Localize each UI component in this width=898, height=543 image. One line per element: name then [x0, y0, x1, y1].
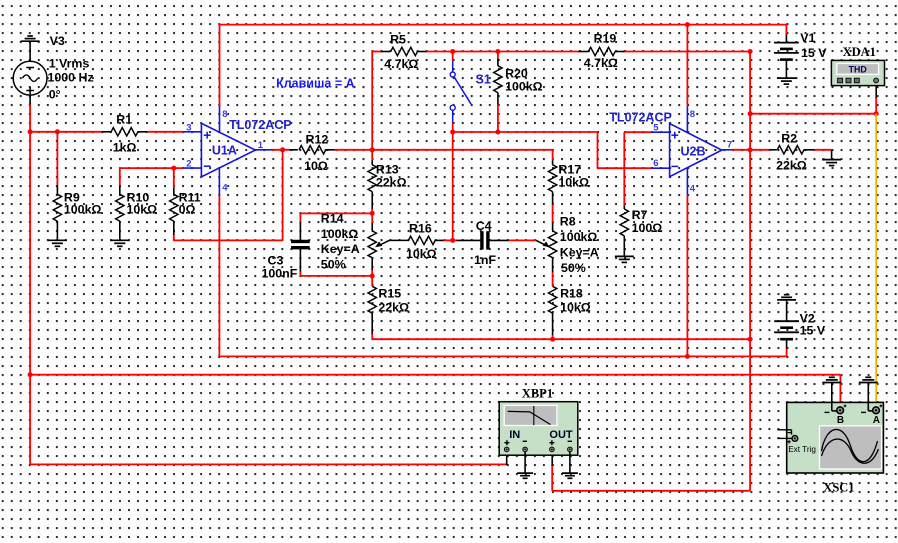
junction S1 bottom: [450, 130, 455, 135]
battery V2: [786, 300, 788, 321]
svg-text:XBP1: XBP1: [522, 387, 553, 401]
wire node A to R1: [30, 131, 102, 133]
svg-text:V3: V3: [50, 34, 65, 48]
wire R5 left drop x=372.2 to summing node: [371, 51, 373, 150]
resistor R9: [56, 186, 58, 195]
ground above V2: [777, 299, 796, 301]
svg-text:4: 4: [222, 183, 228, 194]
svg-text:Ext Trig: Ext Trig: [788, 445, 816, 454]
svg-text:R20: R20: [505, 67, 528, 81]
instrument XDA1 distortion analyzer: [831, 60, 884, 85]
svg-text:4: 4: [690, 184, 696, 195]
wire U2B pin4 drop: [686, 195, 688, 356]
wire R2 ground stub: [831, 150, 833, 160]
wire C3 top run y=213.4: [300, 212, 372, 214]
wire top V+ rail y=24.6: [220, 24, 787, 26]
op-amp U2B: [670, 124, 722, 177]
scope channel B terminal: [837, 407, 844, 414]
wire feedback riser x=282.6: [282, 150, 284, 241]
svg-text:1000 Hz: 1000 Hz: [48, 71, 94, 85]
resistor R10: [119, 186, 121, 195]
svg-text:V1: V1: [800, 31, 815, 45]
svg-text:7: 7: [727, 140, 732, 151]
svg-text:10kΩ: 10kΩ: [558, 175, 589, 189]
svg-text:C3: C3: [268, 253, 284, 267]
wire R11 bottom feedback run y=240.4: [173, 234, 175, 240]
svg-text:1nF: 1nF: [474, 253, 496, 267]
wire XBP1 OUT- ground stub: [569, 452, 571, 473]
wire S1 top stub: [452, 52, 454, 62]
ground above scope B: [822, 382, 841, 384]
wire output riser x=750.1: [749, 51, 751, 491]
ground below V1: [777, 77, 796, 79]
junction output riser/lower rail: [748, 337, 753, 342]
svg-text:XDA1: XDA1: [843, 45, 876, 59]
wire V- rail y=356.4: [219, 355, 786, 357]
resistor R11: [173, 188, 175, 194]
svg-text:TL072ACP: TL072ACP: [609, 111, 672, 125]
resistor R19: [579, 51, 589, 53]
wire switched net y=132.0 to corner: [453, 131, 598, 133]
ground below R9: [48, 239, 67, 241]
svg-text:R8: R8: [560, 215, 576, 229]
ground below R10: [110, 239, 129, 241]
svg-text:50%: 50%: [561, 261, 586, 275]
wire V1 drop from top rail: [785, 24, 787, 35]
svg-text:R2: R2: [781, 131, 797, 145]
svg-text:Key=A: Key=A: [560, 245, 599, 259]
wire XBP1 OUT+ black stub: [551, 452, 553, 466]
wire V3 to node A: [29, 104, 31, 132]
resistor R18: [548, 286, 556, 313]
junction output riser/top rail: [748, 49, 753, 54]
wire U1A pin4 drop x=219.4: [218, 195, 220, 356]
wire XBP1 IN+ black stub: [506, 452, 508, 465]
wire R20 top stub: [497, 52, 499, 59]
svg-text:22kΩ: 22kΩ: [378, 300, 409, 314]
junction U1A output/feedback: [280, 147, 285, 152]
wire R14 stubs: [371, 213, 373, 223]
svg-text:5: 5: [653, 123, 659, 134]
junction top rail / U2B pin8: [685, 22, 690, 27]
wire R17/R8 link stub: [552, 204, 554, 222]
resistor R5: [381, 51, 390, 53]
potentiometer R14: [371, 223, 373, 230]
wire R10 top drop: [119, 167, 121, 185]
wire corner down to U2B pin6 level: [597, 132, 599, 168]
svg-text:0°: 0°: [49, 87, 61, 101]
wire U1A pin8 supply riser x=219.5: [219, 24, 221, 107]
instrument XSC1 oscilloscope: [787, 402, 884, 473]
svg-text:10kΩ: 10kΩ: [127, 203, 158, 217]
junction R20 bottom: [495, 130, 500, 135]
svg-text:100kΩ: 100kΩ: [321, 227, 359, 241]
svg-text:IN: IN: [509, 429, 520, 441]
svg-text:THD: THD: [849, 65, 867, 75]
junction output riser/XDA row: [748, 111, 753, 116]
svg-text:1 Vrms: 1 Vrms: [49, 57, 90, 71]
junction V- rail / U2B pin4: [685, 354, 690, 359]
wire U2B pin7 to output riser: [732, 149, 750, 151]
wire XBP1 IN- ground stub: [524, 452, 526, 473]
wire R13 stubs: [371, 150, 373, 161]
svg-text:100Ω: 100Ω: [632, 221, 663, 235]
svg-text:Key=A: Key=A: [321, 242, 360, 256]
ground below XBP1 IN-: [517, 472, 533, 474]
svg-text:10kΩ: 10kΩ: [560, 300, 591, 314]
wire scope B ground stub: [831, 383, 833, 411]
svg-text:B: B: [837, 415, 844, 426]
wire S1 bottom to switched net: [452, 122, 454, 132]
junction input riser / bottom rail: [28, 372, 33, 377]
resistor R17: [552, 160, 554, 165]
wire R20 bottom: [497, 104, 499, 132]
resistor R7: [623, 205, 625, 209]
svg-text:Клавиша = А: Клавиша = А: [276, 77, 355, 91]
wire S1 riser down to wiper net x=452.7: [452, 132, 454, 240]
wire R12 to node B: [335, 149, 373, 151]
svg-text:3: 3: [186, 123, 191, 134]
svg-text:4.7kΩ: 4.7kΩ: [584, 56, 618, 70]
svg-text:R14: R14: [321, 212, 344, 226]
scope channel A terminal: [873, 407, 880, 414]
switch S1: [452, 62, 454, 73]
junction wiper net / S1 riser: [450, 238, 455, 243]
ground below R7: [615, 255, 634, 257]
svg-text:C4: C4: [476, 219, 492, 233]
svg-text:S1: S1: [476, 72, 491, 86]
svg-text:R12: R12: [306, 133, 329, 147]
resistor R13: [371, 160, 373, 164]
svg-text:XSC1: XSC1: [823, 481, 854, 495]
svg-text:22kΩ: 22kΩ: [376, 175, 407, 189]
wire R8 top red piece: [552, 272, 554, 286]
junction XDA row / scope-A feeder: [874, 111, 879, 116]
wire lower mid rail y=339.2 (R15-R18-output riser): [372, 338, 750, 340]
svg-text:R19: R19: [594, 32, 617, 46]
wire output to XBP1 OUT+: [552, 490, 750, 492]
svg-text:1: 1: [258, 140, 264, 151]
potentiometer R8: [552, 222, 554, 230]
svg-text:R15: R15: [378, 286, 401, 300]
svg-text:100kΩ: 100kΩ: [560, 230, 598, 244]
wire U2B pin5 corner to R7: [624, 131, 651, 133]
svg-text:R7: R7: [632, 208, 648, 222]
source V3: [29, 41, 31, 61]
junction output riser/pin7: [748, 147, 753, 152]
svg-text:8: 8: [222, 109, 227, 120]
svg-text:R1: R1: [116, 112, 132, 126]
resistor R16: [408, 236, 435, 244]
svg-text:2: 2: [186, 159, 191, 170]
instrument XBP1 bode plotter: [499, 402, 578, 456]
wire R15 stubs: [371, 276, 373, 286]
resistor R20: [497, 59, 499, 66]
wire scope A ground stub: [867, 383, 869, 411]
wire V2 corner riser: [786, 348, 788, 357]
svg-text:1kΩ: 1kΩ: [113, 140, 137, 154]
wire yellow scope channel A feeder: [875, 114, 877, 406]
capacitor C4: [457, 239, 481, 241]
svg-text:15 V: 15 V: [801, 46, 827, 60]
junction R14/R15/C3-bottom: [370, 274, 375, 279]
svg-text:50%: 50%: [321, 257, 346, 271]
svg-text:U1A: U1A: [212, 144, 237, 158]
resistor R12: [290, 149, 298, 151]
junction R13/R14/C3-top: [370, 211, 375, 216]
wire node B to R17 corner: [372, 149, 552, 151]
scope ext trig terminal: [792, 436, 798, 442]
svg-text:R5: R5: [390, 33, 406, 47]
svg-text:15 V: 15 V: [800, 324, 826, 338]
svg-text:6: 6: [653, 158, 658, 169]
wire XDA1 row y=113.7: [750, 113, 876, 115]
junction R18 bottom: [550, 337, 555, 342]
svg-text:100kΩ: 100kΩ: [64, 203, 102, 217]
svg-text:OUT: OUT: [549, 429, 573, 441]
node A junction V3/R1: [28, 129, 33, 134]
wire U2B pin8 supply riser x=687.4: [686, 25, 688, 107]
node B junction R12/R13/R5: [370, 147, 375, 152]
wire XDA1 red drop: [875, 97, 877, 114]
wire R10/R11 to U1A pin2 y=168.1: [120, 167, 184, 169]
ground above scope A: [859, 382, 878, 384]
resistor R2: [770, 149, 777, 151]
svg-text:100nF: 100nF: [262, 266, 298, 280]
wire XDA1 black stub: [875, 84, 877, 98]
svg-text:U2B: U2B: [681, 144, 706, 158]
svg-text:10Ω: 10Ω: [304, 159, 328, 173]
wire C3 bottom run y=275.9: [299, 271, 301, 276]
wire R11 top drop: [173, 168, 175, 188]
wire bottom sense rail y=374.7: [30, 374, 840, 376]
wire scope channel B red drop: [839, 375, 841, 407]
op-amp U1A: [201, 123, 255, 177]
junction rail/R20: [495, 49, 500, 54]
capacitor C3: [299, 222, 301, 239]
svg-text:R18: R18: [560, 286, 583, 300]
svg-text:R16: R16: [409, 221, 432, 235]
svg-text:100kΩ: 100kΩ: [505, 80, 543, 94]
svg-text:4.7kΩ: 4.7kΩ: [384, 57, 418, 71]
junction R9 tap: [55, 129, 60, 134]
wire second rail y=51.5 (R5-S1-R20-R19): [372, 51, 382, 53]
svg-text:0Ω: 0Ω: [179, 203, 196, 217]
wire R1 to U1A pin3: [147, 131, 183, 133]
wire input sense riser x=30.1: [29, 132, 31, 375]
wire R2 pieces: [750, 149, 769, 151]
wire U1A pin1 to R12: [271, 149, 290, 151]
wire R18 bottom stub: [552, 335, 554, 339]
ground above V3: [21, 40, 40, 42]
resistor R1: [102, 131, 111, 133]
ground right of R2: [822, 159, 841, 161]
junction rail/S1: [450, 49, 455, 54]
svg-text:10kΩ: 10kΩ: [406, 247, 437, 261]
wire to XBP1 IN+: [29, 375, 31, 465]
svg-text:TL072ACP: TL072ACP: [229, 118, 292, 132]
svg-text:22kΩ: 22kΩ: [776, 159, 807, 173]
resistor R15: [368, 286, 376, 313]
ground below XBP1 OUT-: [562, 472, 578, 474]
junction R11 tap on pin2 net: [171, 166, 176, 171]
svg-text:8: 8: [690, 109, 695, 120]
svg-text:A: A: [873, 415, 880, 426]
wire R9 top: [56, 132, 58, 186]
battery V1: [785, 35, 787, 43]
wire wiper net red pieces y=240.4: [443, 239, 457, 241]
